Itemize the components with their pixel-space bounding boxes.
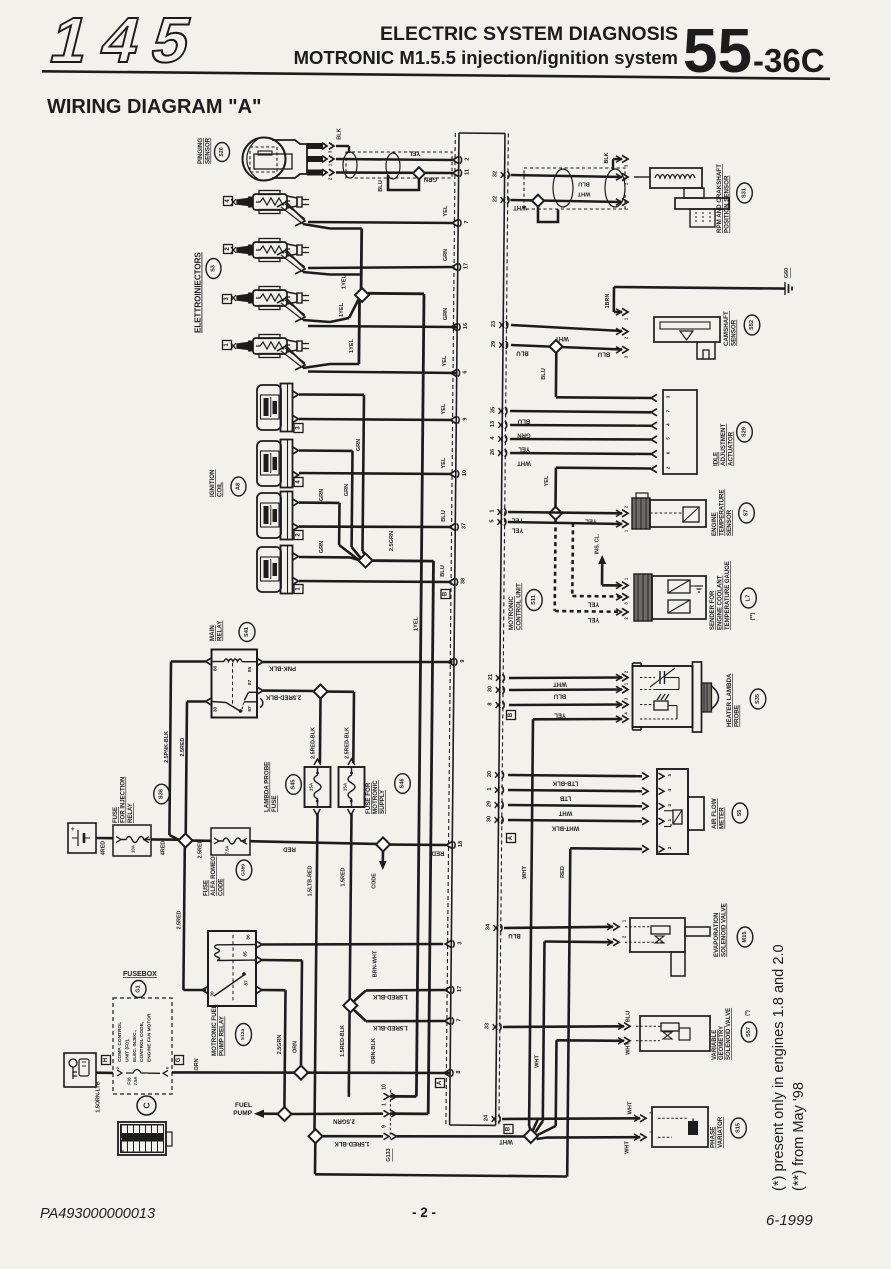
wire 2.5RED junction to code fuse — [192, 839, 211, 842]
sender for engine coolant temperature gauge body — [634, 574, 652, 621]
svg-text:YEL: YEL — [441, 457, 447, 468]
svg-text:37: 37 — [461, 523, 467, 529]
svg-text:7: 7 — [666, 410, 671, 413]
svg-text:S29: S29 — [742, 427, 748, 437]
wire BLU coil1 to pin 38 — [299, 581, 451, 582]
svg-text:10A: 10A — [131, 845, 136, 853]
svg-text:16: 16 — [463, 323, 469, 329]
svg-text:S11: S11 — [531, 595, 537, 605]
wire WHT pin 26 to actuator 6 — [510, 453, 651, 454]
connector G133 pin 1 — [384, 1110, 390, 1117]
svg-text:145: 145 — [44, 4, 214, 76]
svg-text:7: 7 — [464, 220, 470, 223]
camshaft sensor pins — [622, 308, 628, 315]
svg-text:HEATER LAMBDA: HEATER LAMBDA — [726, 673, 733, 727]
pinging sensor S20 body — [243, 138, 286, 181]
wire 2.5GRN relay 87 down — [262, 989, 286, 992]
injector 4 — [231, 199, 236, 205]
svg-text:87: 87 — [247, 706, 253, 712]
svg-text:15A: 15A — [309, 782, 314, 791]
svg-text:1.5LTB-RED: 1.5LTB-RED — [308, 866, 314, 897]
wire 2.5RED junction down to fuel pump relay — [183, 847, 184, 990]
wire BLU pin 30 to lambda 1 — [509, 688, 622, 691]
svg-text:TEMPERATURE: TEMPERATURE — [719, 489, 726, 536]
fuse alfa romeo code G389 — [211, 828, 250, 855]
svg-text:YEL: YEL — [554, 712, 566, 718]
svg-text:S12a: S12a — [240, 1029, 246, 1041]
svg-text:FOR INJECTION: FOR INJECTION — [121, 777, 127, 823]
svg-text:18: 18 — [458, 841, 464, 847]
wire RED return bottom loop — [314, 1143, 317, 1175]
wire YEL actuator 2 down — [556, 466, 651, 469]
wire 1YEL common vertical upper — [360, 229, 363, 290]
svg-text:87: 87 — [247, 680, 253, 686]
svg-text:YEL: YEL — [587, 616, 599, 622]
connector G133 pin 9 — [384, 1133, 390, 1140]
svg-text:UNIT (FD),: UNIT (FD), — [124, 1038, 130, 1062]
svg-text:CODE: CODE — [372, 873, 378, 889]
svg-text:1.5RED: 1.5RED — [341, 867, 347, 886]
svg-text:S52: S52 — [749, 320, 755, 330]
node junction battery feed — [179, 834, 193, 848]
wire 1.5RED fuse S46 down — [349, 813, 352, 1093]
svg-text:COMP. CONTROL: COMP. CONTROL — [117, 1022, 123, 1062]
connector section bracket A left — [436, 1079, 445, 1088]
svg-text:H: H — [103, 1058, 109, 1062]
svg-text:WIRING DIAGRAM "A": WIRING DIAGRAM "A" — [47, 96, 262, 118]
svg-text:6: 6 — [666, 451, 671, 454]
engine temperature sensor pins — [622, 510, 628, 517]
svg-text:GRN: GRN — [424, 176, 437, 182]
oval S29 — [737, 422, 753, 442]
svg-text:MAIN: MAIN — [209, 625, 216, 641]
svg-text:L7: L7 — [746, 595, 752, 602]
wire BLU pin 33 to vgs 1 — [503, 1025, 624, 1028]
svg-text:17: 17 — [457, 986, 463, 992]
variable geometry solenoid valve body — [640, 1016, 710, 1051]
wire WHT pin 29 to meter 3 — [508, 805, 642, 806]
wire 4RED fuse to junction — [151, 838, 179, 841]
svg-text:POSITION SENSOR: POSITION SENSOR — [724, 175, 731, 233]
svg-text:G389: G389 — [241, 864, 247, 876]
svg-text:9: 9 — [460, 659, 466, 662]
oval L7 — [741, 588, 757, 608]
svg-text:S5: S5 — [737, 810, 743, 817]
oval S5 — [732, 803, 748, 823]
wire 1BRN down to camshaft pin 1 — [612, 287, 615, 312]
wire ignition to fusebox — [96, 1071, 113, 1074]
svg-text:7: 7 — [457, 1018, 463, 1021]
connector section bracket B right — [507, 711, 516, 720]
svg-text:1: 1 — [382, 1103, 388, 1106]
wire to motronic fuse — [327, 690, 354, 693]
wire 2.5GRN to G133 pin 1 — [292, 1112, 384, 1115]
svg-text:23: 23 — [491, 321, 497, 327]
oval S3 — [206, 259, 221, 279]
wire YEL lambda 4 down — [533, 718, 622, 721]
camshaft sensor body — [654, 317, 720, 342]
node junction YEL temp sensor — [549, 507, 562, 520]
svg-text:2.5RED-BLK: 2.5RED-BLK — [265, 694, 301, 700]
svg-text:ACTUATOR: ACTUATOR — [728, 431, 735, 466]
oval S20 — [215, 143, 230, 162]
svg-text:1: 1 — [487, 787, 493, 790]
svg-text:2.5RED: 2.5RED — [198, 839, 204, 858]
wire WHT crankshaft loop — [538, 207, 558, 223]
svg-text:1.5ORN-LTB: 1.5ORN-LTB — [96, 1081, 102, 1112]
svg-text:WHT: WHT — [625, 1141, 631, 1154]
wire PNK-BLK relay to pin 9 — [263, 661, 453, 664]
svg-text:22: 22 — [492, 196, 498, 202]
svg-text:BLU: BLU — [378, 180, 384, 192]
evaporation solenoid valve pins — [613, 923, 619, 930]
svg-text:1.5RED-BLK: 1.5RED-BLK — [372, 993, 408, 999]
svg-text:BLU: BLU — [516, 350, 528, 356]
svg-text:21: 21 — [488, 674, 494, 680]
svg-text:CAMSHAFT: CAMSHAFT — [723, 311, 730, 346]
svg-text:LTB: LTB — [559, 795, 571, 801]
svg-text:SENSOR: SENSOR — [731, 319, 738, 346]
svg-text:B: B — [443, 591, 449, 596]
svg-text:ELETTROINIECTORS: ELETTROINIECTORS — [194, 252, 203, 333]
component pin double chevrons — [616, 156, 622, 162]
wire GRN coil3 top — [299, 393, 364, 396]
svg-text:9: 9 — [382, 1125, 388, 1128]
wire YEL dashed to sender 2 — [553, 520, 556, 611]
svg-text:26: 26 — [490, 449, 496, 455]
svg-text:WHT: WHT — [535, 1055, 541, 1068]
injector 1 — [231, 343, 236, 349]
node junction 2.5GRN — [359, 554, 373, 568]
svg-text:11: 11 — [465, 169, 471, 175]
svg-text:35: 35 — [490, 407, 496, 413]
wire YEL dashed to sender 3 — [571, 523, 574, 596]
node junction RED/CODE — [376, 837, 390, 851]
svg-text:RELAY: RELAY — [128, 803, 134, 823]
svg-text:G: G — [176, 1057, 182, 1062]
svg-text:MOTRONIC FUEL: MOTRONIC FUEL — [211, 1004, 218, 1056]
svg-text:GEOMETRY: GEOMETRY — [719, 1026, 725, 1060]
svg-text:2.5RED-BLK: 2.5RED-BLK — [345, 727, 351, 759]
wire YEL coil4 to pin 10 — [299, 473, 452, 474]
svg-text:AIR FLOW: AIR FLOW — [711, 798, 718, 829]
svg-text:S45: S45 — [291, 780, 297, 790]
svg-text:2.5GRN: 2.5GRN — [333, 1118, 355, 1124]
svg-text:CONTROL CODE,: CONTROL CODE, — [139, 1021, 145, 1062]
oval S45 — [286, 775, 302, 795]
ignition coil 4 — [257, 441, 281, 486]
wire WHT evap 2 down — [545, 940, 614, 943]
node junction GRN/BLU — [413, 167, 425, 179]
svg-text:WHT: WHT — [513, 204, 527, 210]
injector 2 — [231, 247, 236, 253]
wire 4RED battery to fuse — [96, 837, 113, 840]
evaporation solenoid valve body — [630, 918, 685, 952]
svg-text:20: 20 — [487, 771, 493, 777]
connector G133 pin 10 — [384, 1093, 390, 1100]
svg-text:F16: F16 — [127, 1077, 132, 1085]
svg-text:RPM AND CRAKSHAFT: RPM AND CRAKSHAFT — [716, 164, 723, 233]
wire BLU pin 32 to crankshaft sensor — [511, 175, 622, 177]
node junction BLU camshaft — [550, 340, 563, 353]
heater lambda probe pins — [622, 674, 628, 681]
svg-text:YEL: YEL — [408, 150, 420, 156]
svg-text:30: 30 — [488, 686, 494, 692]
bracket G — [175, 1056, 184, 1065]
svg-text:3: 3 — [667, 803, 672, 806]
svg-text:RED: RED — [283, 846, 296, 852]
air flow meter body — [657, 769, 688, 854]
connector section bracket A right — [507, 834, 516, 843]
svg-text:FUSE: FUSE — [113, 807, 119, 823]
bus pins right side — [501, 172, 506, 178]
svg-text:PUMP: PUMP — [233, 1110, 252, 1117]
svg-text:10: 10 — [382, 1084, 388, 1090]
svg-text:1.5RED-BLK: 1.5RED-BLK — [334, 1140, 370, 1146]
svg-text:BLU: BLU — [598, 351, 610, 357]
svg-text:86: 86 — [213, 666, 219, 672]
oval G389 — [236, 860, 252, 880]
svg-text:BLU: BLU — [440, 565, 446, 577]
svg-text:SUPPLY: SUPPLY — [379, 789, 386, 814]
svg-text:YEL: YEL — [443, 205, 449, 216]
wire RED meter 2 down — [570, 847, 642, 850]
svg-text:2.5RED: 2.5RED — [180, 737, 186, 756]
svg-text:PUMP RELAY: PUMP RELAY — [219, 1015, 226, 1056]
wire LTB pin 1 to meter 4 — [508, 790, 642, 791]
oval S52 — [744, 315, 760, 335]
node junction 1.5RED-BLK bottom — [309, 1129, 323, 1143]
svg-text:FUSEBOX: FUSEBOX — [123, 971, 157, 978]
svg-text:GRN: GRN — [319, 489, 325, 501]
svg-text:1: 1 — [667, 818, 672, 821]
svg-text:FUSE FOR: FUSE FOR — [365, 782, 372, 814]
svg-text:YEL: YEL — [587, 601, 599, 607]
oval S57 — [741, 1022, 757, 1042]
svg-text:5: 5 — [489, 519, 495, 522]
oval S12a — [236, 1024, 252, 1046]
fuse for injection relay S36 — [113, 825, 151, 856]
wire BLU coil2 to pin 37 — [299, 525, 451, 528]
node junction WHT crankshaft — [532, 195, 544, 207]
svg-text:WHT: WHT — [628, 1101, 634, 1114]
wire YEL pin 1 to temp sensor 2 — [508, 512, 622, 513]
svg-text:9: 9 — [462, 417, 468, 420]
svg-text:B: B — [506, 1126, 512, 1131]
wire GRN coil4 top — [299, 449, 353, 452]
wire injector2 pin1 — [303, 272, 330, 275]
svg-text:55: 55 — [683, 17, 752, 86]
svg-text:6-1999: 6-1999 — [766, 1212, 813, 1229]
wire GRN injector3 to pin 16 — [308, 326, 457, 327]
wire YEL pinging to pin 2 — [336, 159, 453, 160]
node junction 1YEL — [355, 288, 369, 302]
svg-text:S35: S35 — [755, 694, 761, 704]
svg-text:FUEL: FUEL — [235, 1102, 252, 1109]
svg-text:13: 13 — [490, 421, 496, 427]
svg-text:EVAPORATION: EVAPORATION — [713, 912, 720, 957]
svg-text:S31: S31 — [742, 188, 748, 198]
svg-text:4: 4 — [666, 423, 671, 426]
wire to lambda fuse — [319, 698, 322, 763]
wire INS CL arrow — [602, 584, 621, 587]
svg-text:BLU: BLU — [578, 181, 590, 187]
svg-text:7.5A: 7.5A — [225, 846, 230, 855]
wire 1.5RED-BLK to pin 17 — [354, 990, 367, 1001]
ground G60 — [784, 282, 786, 295]
svg-text:PHASE: PHASE — [710, 1127, 717, 1148]
svg-text:38: 38 — [461, 578, 467, 584]
wire 1YEL trunk to G133 — [368, 292, 424, 295]
ignition switch symbol — [64, 1053, 96, 1087]
svg-text:3: 3 — [666, 395, 671, 398]
wire GRN coil1 top — [299, 556, 350, 559]
svg-text:WHT: WHT — [499, 1138, 513, 1144]
svg-text:LAMBDA PROBE: LAMBDA PROBE — [264, 762, 271, 812]
svg-text:2: 2 — [465, 157, 471, 160]
node junction WHT phase variator — [524, 1129, 538, 1143]
oval S7 — [739, 503, 755, 523]
svg-text:BLU: BLU — [508, 932, 520, 938]
header: 145 logo — [44, 4, 214, 76]
injector 3 — [231, 295, 236, 301]
svg-text:1ORN: 1ORN — [194, 1058, 200, 1073]
svg-text:SENSOR: SENSOR — [205, 137, 212, 164]
svg-text:IGNITION: IGNITION — [209, 469, 216, 497]
header rule — [42, 71, 830, 79]
svg-text:YEL: YEL — [544, 475, 550, 486]
svg-text:G60: G60 — [784, 268, 790, 278]
node junction ORN ignition — [294, 1066, 308, 1080]
svg-text:1BRN: 1BRN — [605, 294, 611, 309]
svg-text:2: 2 — [666, 466, 671, 469]
svg-text:B: B — [508, 712, 514, 717]
bracket tag 4 — [224, 197, 233, 206]
connector section bracket B left — [441, 590, 450, 599]
svg-text:2.5RED: 2.5RED — [177, 910, 183, 929]
wire WHT pin 22 to crankshaft sensor — [510, 200, 622, 202]
wire injector3 pin1 to junction — [303, 320, 330, 322]
svg-text:WHT: WHT — [558, 810, 572, 816]
svg-text:4RED: 4RED — [161, 841, 167, 855]
svg-text:IDLE: IDLE — [713, 452, 720, 466]
svg-text:ENGINE FAN MOTOR: ENGINE FAN MOTOR — [147, 1013, 153, 1062]
svg-text:YEL: YEL — [441, 403, 447, 414]
svg-text:PROBE: PROBE — [734, 705, 741, 727]
svg-text:29: 29 — [487, 801, 493, 807]
svg-text:8: 8 — [456, 1070, 462, 1073]
oval S41 — [239, 623, 255, 642]
svg-text:2.5PNK-BLK: 2.5PNK-BLK — [164, 731, 170, 763]
idle adjustment actuator S29 box — [663, 390, 697, 474]
svg-text:30: 30 — [210, 991, 216, 997]
node junction 1.5RED-BLK — [343, 999, 357, 1013]
shield around pinging wires — [346, 152, 452, 178]
svg-text:WHT: WHT — [553, 681, 567, 687]
svg-text:ELEC. INJEC.,: ELEC. INJEC., — [132, 1029, 138, 1062]
svg-text:G1: G1 — [136, 985, 142, 992]
svg-text:1YEL: 1YEL — [339, 302, 345, 317]
ignition coil 1 — [257, 547, 281, 592]
bracket tag 4 — [294, 478, 303, 487]
svg-text:30: 30 — [213, 707, 219, 713]
svg-text:ADJUSTMENT: ADJUSTMENT — [720, 423, 727, 466]
bracket tag 1 — [294, 585, 303, 594]
svg-text:SOLENOID VALVE: SOLENOID VALVE — [721, 903, 728, 957]
oval A8 — [231, 477, 246, 496]
svg-text:S57: S57 — [746, 1027, 752, 1037]
svg-text:MOTRONIC: MOTRONIC — [372, 780, 379, 814]
svg-text:1YEL: 1YEL — [349, 338, 355, 353]
wire WHT-BLK pin 30 to meter 1 — [508, 820, 642, 821]
oval S15 — [731, 1118, 747, 1138]
bracket tag 3 — [223, 295, 232, 304]
svg-text:24: 24 — [484, 1114, 490, 1121]
bracket tag 2 — [294, 531, 303, 540]
wire injector4 pin1 to 1YEL — [303, 224, 330, 229]
wire RED junction to pin 18 — [390, 843, 446, 846]
svg-text:ENGINE COOLANT: ENGINE COOLANT — [718, 575, 724, 630]
svg-text:S46: S46 — [400, 779, 406, 789]
wire 2.5RED-BLK relay to fuses — [263, 689, 314, 692]
svg-text:(*): (*) — [745, 1010, 751, 1016]
svg-text:S3: S3 — [211, 265, 217, 272]
wire pin 8 to lambda 3 — [509, 703, 622, 706]
bracket tag 3 — [294, 424, 303, 433]
wire YEL injector4 to pin 7 — [308, 222, 453, 223]
svg-text:86: 86 — [246, 934, 252, 940]
svg-text:+: + — [71, 827, 75, 833]
lambda probe fuse S45 — [305, 767, 331, 807]
wire BRN to ground G60 — [614, 287, 785, 289]
wire WHT pin 21 to lambda 2 — [509, 676, 622, 679]
wire WHT junction to variator 2 — [537, 1138, 547, 1139]
svg-text:S15: S15 — [736, 1123, 742, 1133]
wire YEL coil3 to pin 9 — [299, 419, 452, 420]
svg-text:FUSE: FUSE — [204, 880, 210, 896]
wire G133 pin 9 to lambda junction — [397, 1135, 525, 1138]
svg-text:17: 17 — [464, 263, 470, 269]
svg-text:85: 85 — [247, 667, 253, 673]
node junction fuse feed — [314, 685, 328, 699]
svg-text:ALFA ROMEO: ALFA ROMEO — [211, 856, 217, 896]
phase variator pins — [640, 1115, 646, 1122]
svg-text:(**): (**) — [750, 612, 756, 620]
svg-text:M15: M15 — [742, 932, 748, 943]
svg-text:COIL: COIL — [217, 482, 224, 497]
svg-text:WHT: WHT — [577, 191, 590, 197]
svg-text:2.5GRN: 2.5GRN — [389, 531, 395, 551]
svg-text:GRN: GRN — [344, 484, 350, 496]
svg-text:33: 33 — [485, 1023, 491, 1029]
fuse for motronic supply S46 — [339, 767, 365, 807]
svg-text:PNK-BLK: PNK-BLK — [268, 665, 296, 671]
svg-text:WHT: WHT — [517, 460, 531, 466]
svg-text:LTB-BLK: LTB-BLK — [552, 780, 578, 786]
svg-text:GRN: GRN — [356, 439, 362, 451]
oval G1 — [131, 981, 146, 998]
svg-text:1YEL: 1YEL — [342, 274, 348, 289]
svg-text:S41: S41 — [244, 627, 250, 637]
svg-text:6: 6 — [463, 370, 469, 373]
svg-text:30: 30 — [487, 816, 493, 822]
svg-text:VARIABLE: VARIABLE — [712, 1030, 718, 1060]
svg-text:85: 85 — [243, 951, 249, 957]
svg-text:BLK: BLK — [604, 152, 610, 163]
wire BLK crankshaft shield — [613, 158, 622, 160]
variable geometry solenoid valve pins — [624, 1023, 630, 1030]
bracket H — [102, 1056, 111, 1065]
